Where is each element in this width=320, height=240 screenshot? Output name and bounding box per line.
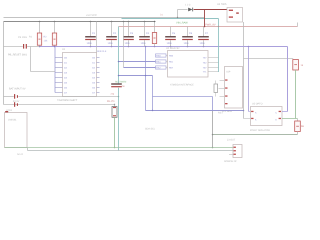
wire purple into U5 right pin1 <box>282 111 288 113</box>
wire C2 top lead <box>111 22 113 37</box>
wire VCC feed down to U1 top <box>96 22 98 53</box>
capacitor C2 <box>106 36 117 40</box>
junction GND bus x154.5 <box>154 46 156 48</box>
U5 red pin marks <box>251 111 281 119</box>
wire C2 bottom lead <box>111 40 113 46</box>
wire C7 bottom lead <box>203 40 205 46</box>
connector J2 box <box>225 67 243 109</box>
wire C1 top lead <box>90 22 92 37</box>
resistor R1 <box>37 33 41 45</box>
wire C1 bottom lead <box>90 40 92 46</box>
junction VCC end <box>154 21 155 22</box>
wire green into U5 right pin2 <box>282 118 298 120</box>
wire R4 bottom lead <box>215 92 217 96</box>
U1 right pin names <box>92 57 96 95</box>
J3 pin3 stub <box>229 154 233 156</box>
net label box U2 row1 <box>156 54 167 57</box>
wire tap down to pink net <box>204 10 206 27</box>
junction GND bus x90.5 <box>90 46 92 48</box>
wire blue y110 to U5 <box>146 110 244 112</box>
wire C7 top lead <box>203 27 205 37</box>
J2 red pin marks <box>225 79 227 104</box>
junction VCC bus x123.5 <box>123 21 125 23</box>
net label box U2 row2 <box>156 60 167 63</box>
svg-text:A0 A1: A0 A1 <box>17 153 24 156</box>
battery B2 symbol <box>14 102 18 107</box>
junction GND bus x111.5 <box>111 46 113 48</box>
capacitor C3 <box>123 36 134 40</box>
svg-text:1 2 3: 1 2 3 <box>185 3 191 6</box>
wire left vertical rail <box>3 22 5 105</box>
wire regulator output down x243 <box>243 22 245 119</box>
wire C5 top lead <box>170 27 172 37</box>
junction GND bus x248.5 <box>248 46 250 48</box>
capacitor C4 <box>139 36 150 40</box>
wire green R7 down to U5 <box>295 70 297 119</box>
connector J3 box <box>233 145 242 158</box>
capacitor C6 <box>182 36 193 40</box>
junction x243 y110 <box>243 110 245 112</box>
svg-text:SCREW 2P: SCREW 2P <box>224 160 237 163</box>
wire teal line to x218 <box>122 18 219 20</box>
diode D1 <box>188 8 193 12</box>
wire blue vertical x152 <box>152 76 154 111</box>
wire diode to regulator dark red <box>194 9 227 11</box>
svg-text:100n: 100n <box>167 42 173 45</box>
capacitor C7 <box>198 36 209 40</box>
svg-text:U2 MAX232: U2 MAX232 <box>166 47 180 50</box>
svg-text:PB_RESET SW1: PB_RESET SW1 <box>8 53 28 56</box>
wire into U1 left pin <box>31 71 56 73</box>
wire teal vertical upper <box>118 27 120 84</box>
capacitor CX <box>23 44 27 49</box>
wire C5 bottom lead <box>170 40 172 46</box>
svg-text:100n: 100n <box>108 42 114 45</box>
junction row1 teal <box>118 96 120 98</box>
U5 pin2 stub left <box>244 118 251 120</box>
wire blue row3 into U2 label <box>124 67 156 69</box>
junction pink teal cross <box>218 26 219 27</box>
wire J2 pin3 stub <box>220 96 225 98</box>
wire vertical x212 lower <box>212 111 214 148</box>
junction x212 y134 <box>212 134 214 136</box>
wire blue row2 <box>119 75 153 77</box>
U1 left pin stubs <box>55 58 63 93</box>
capacitor C5 <box>165 36 176 40</box>
wire vertical x212 upper <box>212 97 214 111</box>
junction blue x145 <box>145 75 147 77</box>
wire blue row1 U1-U2 <box>119 61 156 63</box>
U2 right pin names <box>203 57 208 74</box>
IC U2 box <box>168 51 209 78</box>
U2 left stub 2 <box>166 61 168 63</box>
junction green bus <box>114 147 116 149</box>
wire to CX <box>4 46 23 48</box>
J1 red mark <box>5 111 8 112</box>
IC U1 box <box>63 53 97 97</box>
junction VIN x177 <box>177 17 178 18</box>
U2 left stub 1 <box>166 55 168 57</box>
wire R2 top lead <box>54 22 56 34</box>
wire to R7 <box>244 58 294 60</box>
junction GND bus x145.5 <box>145 46 147 48</box>
resistor R6 <box>295 121 301 132</box>
svg-text:BAT INPUT 9V: BAT INPUT 9V <box>9 87 26 90</box>
svg-text:U5 OPTO: U5 OPTO <box>252 102 263 105</box>
junction VCC bus x111.5 <box>111 21 113 23</box>
wire U2 right pin y62.5 <box>208 62 219 64</box>
net label box U2 row3 <box>156 66 167 69</box>
wire row1 left <box>4 96 14 98</box>
wire bottom bus 2 <box>28 150 234 152</box>
wire R6 top lead <box>297 119 299 122</box>
capacitor C1 <box>85 36 96 40</box>
wire green bottom bus <box>5 147 234 149</box>
U4 internal pin marks <box>229 10 239 18</box>
junction GND bus x187.5 <box>187 46 189 48</box>
svg-text:PC817 ISOLATOR: PC817 ISOLATOR <box>250 129 270 132</box>
wire green R5 to bus <box>114 117 116 147</box>
svg-text:100n: 100n <box>125 42 131 45</box>
svg-text:LM016L: LM016L <box>8 118 17 121</box>
U2 left pin names <box>169 55 174 70</box>
wire pink net end hook <box>297 23 299 27</box>
svg-text:SCK MOSI: SCK MOSI <box>115 80 127 83</box>
wire R1 top lead <box>39 22 41 34</box>
wire purple x248 to U5 pin1 <box>248 47 250 112</box>
junction VCC bus x144.5 <box>144 21 146 23</box>
junction GND bus x203.5 <box>203 46 205 48</box>
svg-text:R5 470: R5 470 <box>107 100 115 103</box>
wire R3 top lead <box>154 22 156 33</box>
wire J2 pin1 stub <box>220 80 225 82</box>
U1 right pin stubs <box>97 58 100 93</box>
resistor R7 top right <box>293 60 299 71</box>
wire C6 top lead <box>187 27 189 37</box>
svg-text:J3 OUT: J3 OUT <box>227 139 236 142</box>
junction VCC bus x39.5 <box>39 21 41 23</box>
svg-text:ISP: ISP <box>227 70 231 73</box>
wire U2 right pin y71.5 <box>208 71 219 73</box>
svg-text:100n: 100n <box>184 42 190 45</box>
U2 left stub 3 <box>166 67 168 69</box>
junction GND bus x128.5 <box>128 46 130 48</box>
J3 red pin marks <box>234 147 236 155</box>
U1 left blue vertical <box>54 47 56 93</box>
wire R6 bottom lead <box>297 132 299 135</box>
wire vertical x123 <box>123 22 125 68</box>
wire C4 bottom lead <box>144 40 146 46</box>
wire +9V pink line <box>119 26 298 28</box>
wire R4 top lead <box>215 81 217 85</box>
capacitor C8 on teal vertical <box>111 83 122 87</box>
wire R2 bottom lead <box>54 45 56 46</box>
junction blue x152 <box>152 110 153 111</box>
junction x212 bus <box>212 147 214 149</box>
resistor R3 <box>152 33 156 44</box>
wire row2 to R5 <box>4 104 115 106</box>
junction GND bus x170.5 <box>170 46 172 48</box>
wire U2 right pin y57.5 <box>208 57 219 59</box>
svg-text:U4 7805: U4 7805 <box>217 3 227 6</box>
junction R5 top <box>114 104 115 105</box>
junction GND bus x39.5 <box>39 46 41 48</box>
resistor R2 <box>52 33 56 45</box>
svg-text:+5V VCC: +5V VCC <box>86 14 97 17</box>
wire to diode anode <box>178 9 188 11</box>
voltage regulator U4 <box>227 8 243 23</box>
junction GND bus x54.5 <box>54 46 56 48</box>
resistor R5 <box>112 107 117 118</box>
wire J1 corner down <box>27 148 29 151</box>
junction blue y61 <box>118 61 120 63</box>
wire horizontal y134 <box>213 134 298 136</box>
junction pink net x204 <box>204 26 206 28</box>
svg-text:PWR_9V: PWR_9V <box>205 23 216 26</box>
wire diode branch vertical <box>177 10 179 18</box>
wire branch vertical x30 <box>30 47 32 72</box>
junction VCC bus x128.5 <box>128 21 130 23</box>
wire blue vertical x145 <box>145 47 147 111</box>
wire net VIN grey line <box>4 17 205 19</box>
wire GND bus purple <box>40 46 288 48</box>
wire C3 top lead <box>128 22 130 37</box>
svg-text:ATMEGA INTERFACE: ATMEGA INTERFACE <box>170 84 194 87</box>
wire VCC bus <box>4 21 156 23</box>
svg-text:74HC595N SHIFT: 74HC595N SHIFT <box>57 99 78 102</box>
wire R3 bottom lead <box>154 44 156 47</box>
wire R5 top lead <box>114 105 116 107</box>
svg-text:SDA SCL: SDA SCL <box>145 127 156 130</box>
wire U2 right pin y67.5 <box>208 67 219 69</box>
wire row1 right to teal vertical <box>18 96 118 98</box>
junction VCC bus x54.5 <box>54 21 56 23</box>
svg-text:RST: RST <box>218 111 223 114</box>
svg-text:100n: 100n <box>141 42 147 45</box>
wire J2 pin2 stub <box>219 88 225 90</box>
wire CX to GND bus <box>27 46 39 48</box>
junction VCC bus x90.5 <box>90 21 92 23</box>
junction blue y75 <box>118 75 120 77</box>
resistor R4 <box>214 84 218 92</box>
U5 pin1 stub left <box>249 111 251 113</box>
connector J1 box bottom left <box>5 113 28 148</box>
battery B1 symbol <box>14 94 18 99</box>
wire teal vertical lower <box>118 88 120 151</box>
svg-text:100n: 100n <box>200 42 206 45</box>
wire R1 bottom lead <box>39 45 41 46</box>
wire blue horizontal y96 <box>153 96 213 98</box>
svg-text:SER CLK: SER CLK <box>97 50 107 53</box>
wire C6 bottom lead <box>187 40 189 46</box>
svg-text:100n: 100n <box>87 42 93 45</box>
wire GND purple vertical right <box>287 47 289 112</box>
svg-text:VIN_RAW: VIN_RAW <box>176 21 188 24</box>
wire C4 top lead <box>144 22 146 37</box>
svg-text:C9 100n: C9 100n <box>18 36 28 39</box>
wire C3 bottom lead <box>128 40 130 46</box>
IC U5 box <box>251 107 283 126</box>
wire teal vertical x218 <box>218 19 220 73</box>
U1 left pin names <box>64 57 68 95</box>
